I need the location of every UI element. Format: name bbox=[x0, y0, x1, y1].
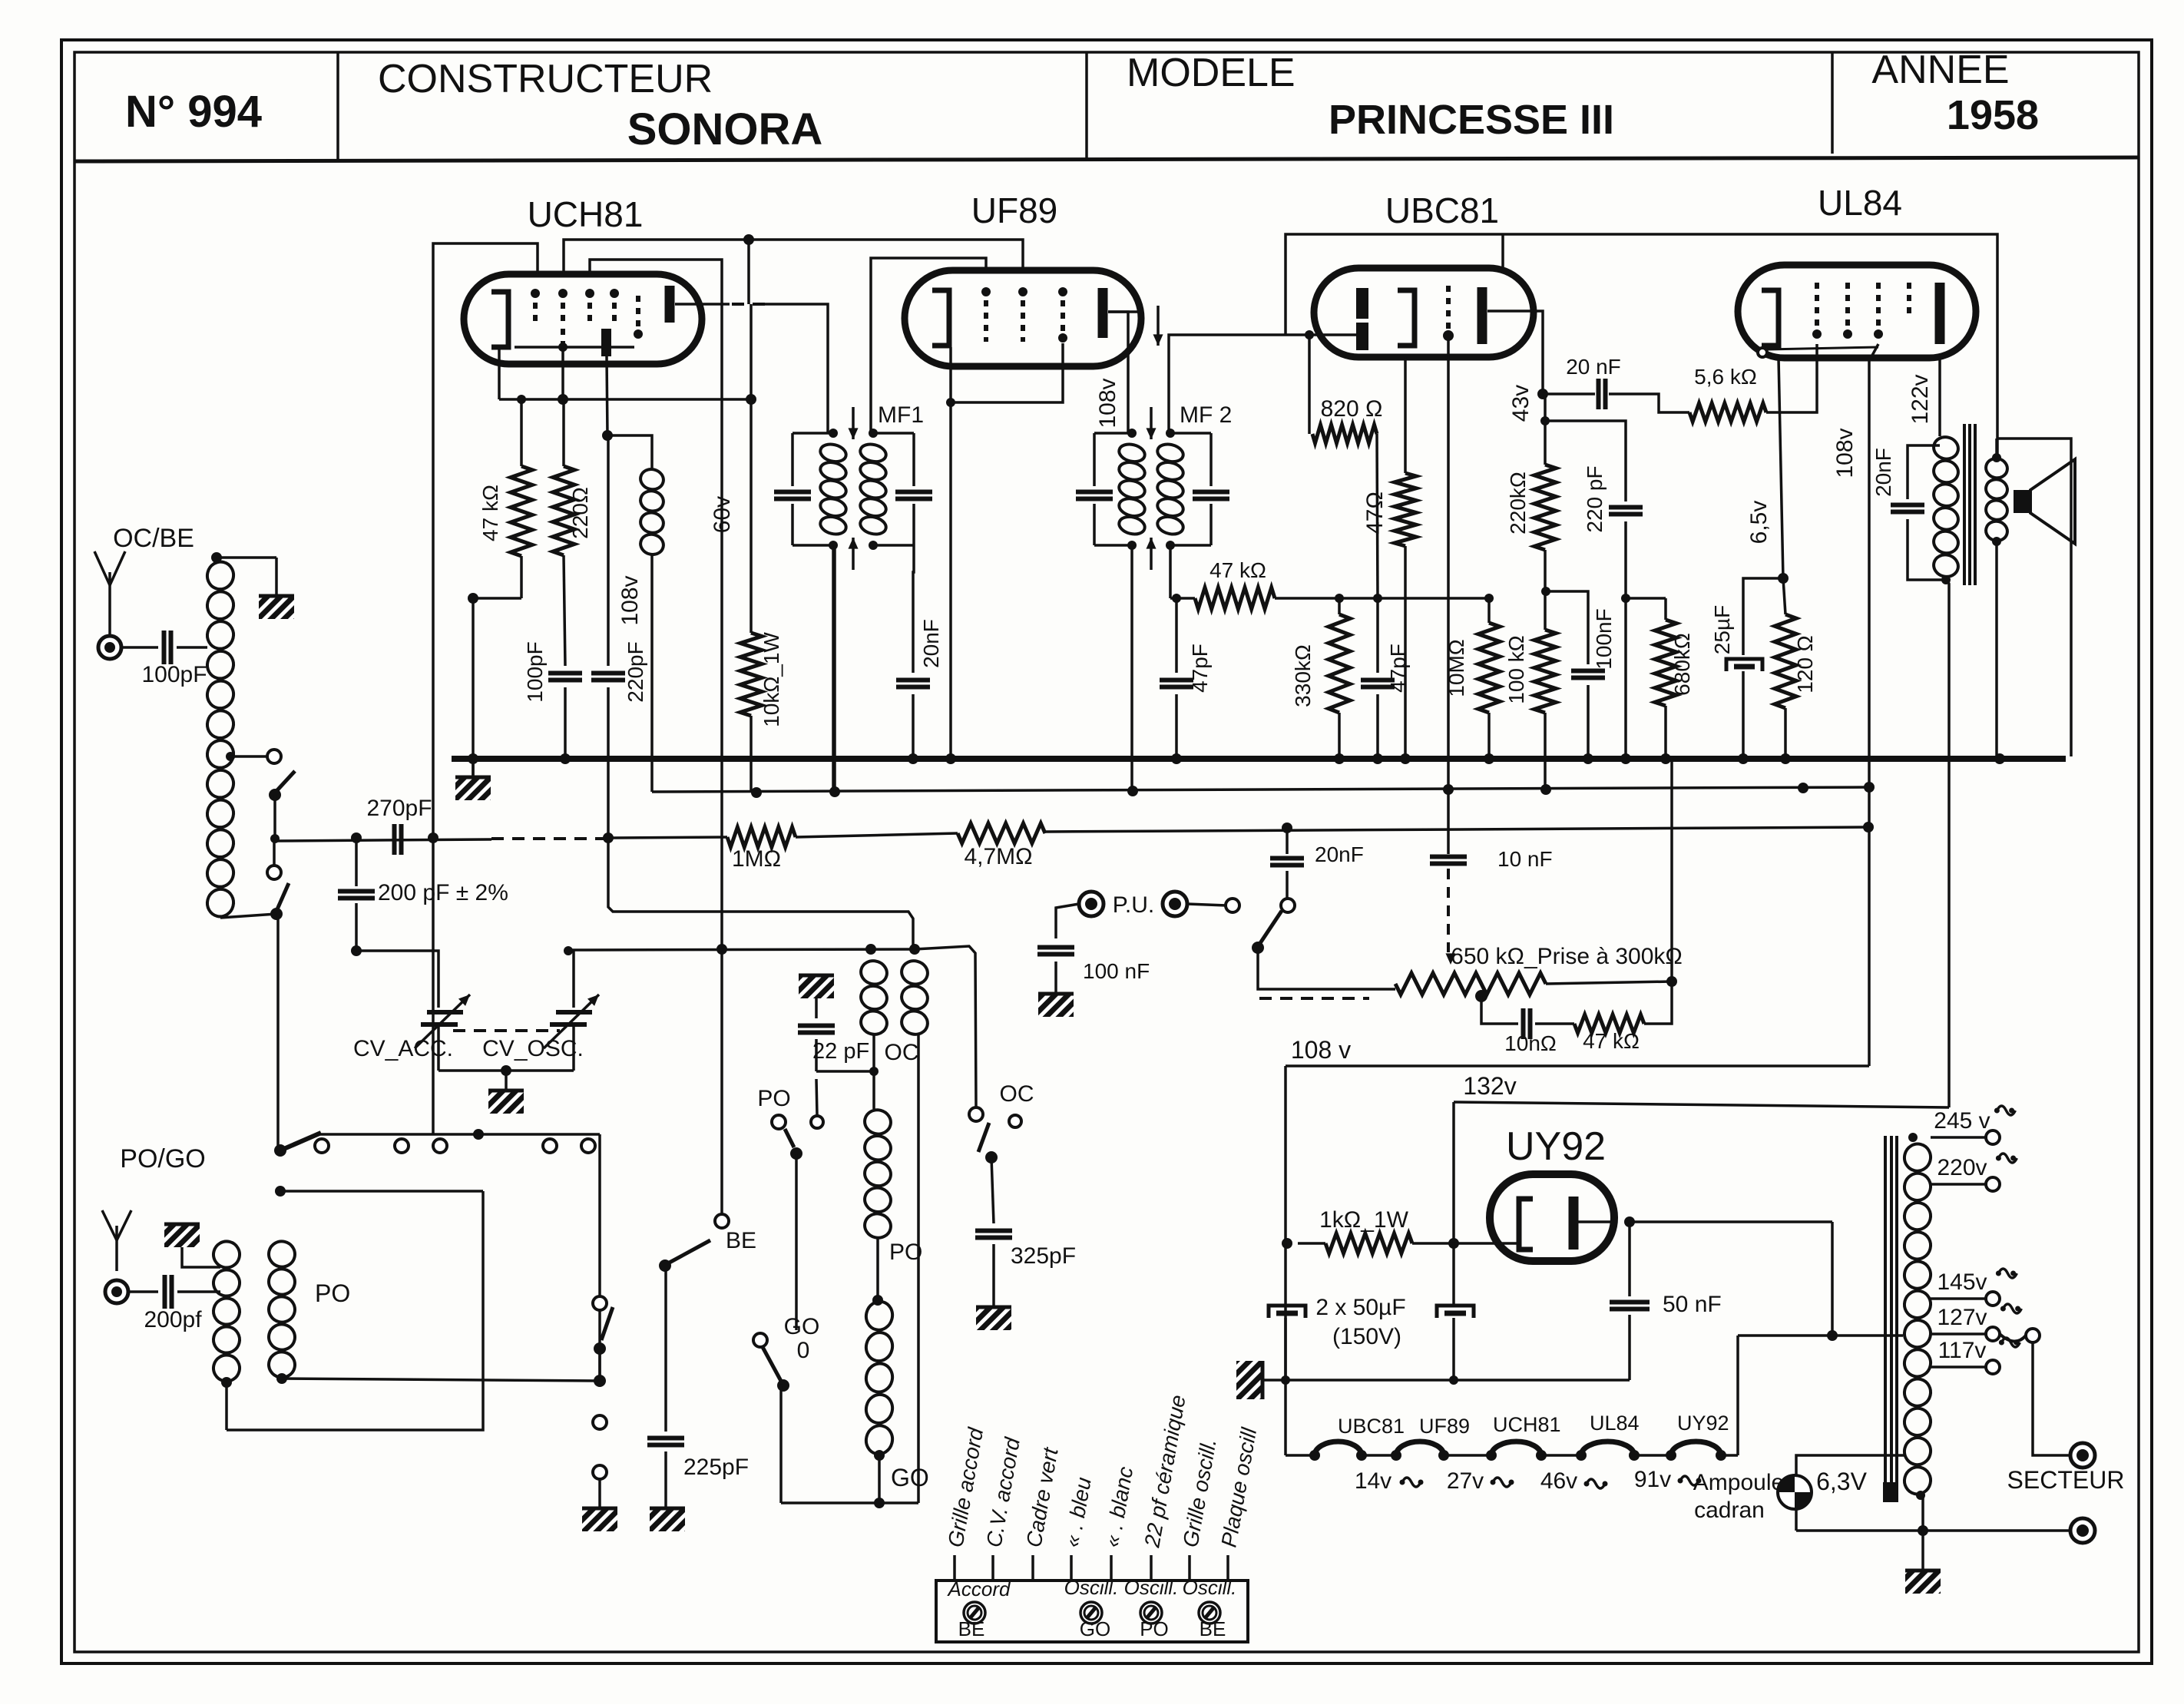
svg-text:P.U.: P.U. bbox=[1113, 892, 1154, 918]
svg-text:SECTEUR: SECTEUR bbox=[2007, 1466, 2125, 1494]
svg-text:2 x 50µF: 2 x 50µF bbox=[1315, 1295, 1405, 1320]
svg-text:CV_ACC.: CV_ACC. bbox=[353, 1036, 453, 1061]
svg-text:UF89: UF89 bbox=[971, 190, 1057, 230]
svg-text:CONSTRUCTEUR: CONSTRUCTEUR bbox=[378, 57, 713, 101]
svg-text:1958: 1958 bbox=[1947, 92, 2039, 138]
svg-text:680kΩ: 680kΩ bbox=[1670, 633, 1694, 696]
svg-text:BE: BE bbox=[958, 1617, 985, 1640]
svg-text:PO: PO bbox=[757, 1086, 790, 1111]
svg-text:UBC81: UBC81 bbox=[1338, 1415, 1405, 1438]
svg-text:220pF: 220pF bbox=[624, 641, 647, 702]
svg-text:5,6 kΩ: 5,6 kΩ bbox=[1694, 365, 1757, 389]
svg-text:108 v: 108 v bbox=[1291, 1036, 1351, 1064]
svg-text:325pF: 325pF bbox=[1011, 1243, 1076, 1269]
svg-text:MF1: MF1 bbox=[878, 402, 924, 428]
svg-text:UY92: UY92 bbox=[1506, 1124, 1606, 1169]
svg-text:(150V): (150V) bbox=[1332, 1324, 1401, 1349]
svg-text:Ampoule: Ampoule bbox=[1693, 1470, 1784, 1495]
svg-text:225pF: 225pF bbox=[683, 1455, 749, 1480]
svg-text:91v: 91v bbox=[1634, 1467, 1671, 1492]
svg-text:108v: 108v bbox=[1832, 428, 1858, 478]
svg-text:PRINCESSE III: PRINCESSE III bbox=[1329, 97, 1614, 143]
svg-text:UL84: UL84 bbox=[1818, 183, 1902, 223]
svg-text:20nF: 20nF bbox=[1315, 842, 1364, 866]
svg-text:6,5v: 6,5v bbox=[1746, 501, 1772, 545]
svg-text:UCH81: UCH81 bbox=[528, 194, 644, 234]
svg-text:20 nF: 20 nF bbox=[1566, 355, 1621, 379]
svg-text:GO: GO bbox=[891, 1464, 929, 1491]
svg-text:4,7MΩ: 4,7MΩ bbox=[964, 844, 1032, 869]
svg-text:245 v: 245 v bbox=[1934, 1108, 1990, 1134]
svg-text:N° 994: N° 994 bbox=[125, 87, 262, 137]
svg-text:43v: 43v bbox=[1508, 385, 1534, 422]
svg-text:Accord: Accord bbox=[947, 1577, 1011, 1600]
svg-text:BE: BE bbox=[726, 1228, 756, 1253]
svg-text:20nF: 20nF bbox=[919, 619, 943, 668]
svg-text:10 nF: 10 nF bbox=[1497, 847, 1553, 871]
svg-text:820 Ω: 820 Ω bbox=[1321, 396, 1383, 422]
svg-text:127v: 127v bbox=[1937, 1305, 1987, 1330]
svg-text:108v: 108v bbox=[1095, 378, 1120, 428]
svg-text:47pF: 47pF bbox=[1188, 644, 1212, 693]
svg-text:47 kΩ: 47 kΩ bbox=[1583, 1029, 1640, 1053]
svg-text:100 nF: 100 nF bbox=[1083, 959, 1150, 983]
svg-text:220v: 220v bbox=[1937, 1155, 1987, 1180]
svg-text:50 nF: 50 nF bbox=[1663, 1292, 1722, 1317]
svg-text:10nΩ: 10nΩ bbox=[1504, 1031, 1557, 1055]
svg-text:270pF: 270pF bbox=[366, 796, 432, 821]
svg-text:200pf: 200pf bbox=[144, 1307, 202, 1332]
svg-text:122v: 122v bbox=[1908, 374, 1933, 424]
svg-text:117v: 117v bbox=[1938, 1338, 1987, 1363]
svg-text:47 kΩ: 47 kΩ bbox=[1209, 558, 1266, 582]
svg-text:1kΩ_1W: 1kΩ_1W bbox=[1319, 1207, 1408, 1233]
svg-text:PO: PO bbox=[315, 1279, 350, 1307]
svg-text:OC: OC bbox=[885, 1040, 919, 1065]
svg-text:OC/BE: OC/BE bbox=[113, 524, 194, 553]
svg-text:0: 0 bbox=[797, 1338, 810, 1363]
svg-text:60v: 60v bbox=[710, 496, 735, 533]
svg-text:14v: 14v bbox=[1355, 1468, 1391, 1494]
svg-text:CV_OSC.: CV_OSC. bbox=[482, 1036, 584, 1061]
svg-text:UL84: UL84 bbox=[1590, 1412, 1640, 1435]
svg-text:PO/GO: PO/GO bbox=[120, 1144, 205, 1173]
svg-text:100pF: 100pF bbox=[523, 641, 547, 702]
svg-text:cadran: cadran bbox=[1694, 1498, 1765, 1523]
svg-text:SONORA: SONORA bbox=[627, 104, 823, 154]
svg-text:22 pF: 22 pF bbox=[812, 1039, 869, 1064]
svg-text:100nF: 100nF bbox=[1592, 608, 1616, 669]
svg-text:650 kΩ_Prise à 300kΩ: 650 kΩ_Prise à 300kΩ bbox=[1451, 944, 1683, 969]
svg-text:25µF: 25µF bbox=[1710, 605, 1734, 654]
svg-text:MODELE: MODELE bbox=[1127, 51, 1296, 95]
svg-text:UCH81: UCH81 bbox=[1493, 1413, 1561, 1436]
svg-text:10kΩ_1W: 10kΩ_1W bbox=[759, 632, 783, 727]
svg-text:120 Ω: 120 Ω bbox=[1793, 635, 1817, 693]
svg-text:1MΩ: 1MΩ bbox=[732, 846, 781, 872]
svg-text:Oscill.: Oscill. bbox=[1124, 1576, 1179, 1599]
svg-text:UBC81: UBC81 bbox=[1385, 190, 1499, 230]
svg-text:UF89: UF89 bbox=[1419, 1415, 1470, 1438]
svg-text:100 kΩ: 100 kΩ bbox=[1504, 635, 1528, 703]
svg-text:330kΩ: 330kΩ bbox=[1291, 644, 1315, 707]
svg-text:132v: 132v bbox=[1463, 1072, 1516, 1100]
svg-text:GO: GO bbox=[784, 1314, 820, 1339]
svg-text:220 pF: 220 pF bbox=[1583, 465, 1607, 532]
svg-text:Oscill.: Oscill. bbox=[1064, 1576, 1119, 1599]
svg-text:MF 2: MF 2 bbox=[1180, 402, 1232, 428]
svg-text:27v: 27v bbox=[1447, 1468, 1484, 1494]
svg-text:47Ω: 47Ω bbox=[1362, 492, 1388, 535]
svg-text:PO: PO bbox=[1140, 1617, 1169, 1640]
svg-text:108v: 108v bbox=[617, 575, 643, 625]
svg-text:220kΩ: 220kΩ bbox=[1506, 472, 1530, 535]
svg-text:100pF: 100pF bbox=[141, 662, 207, 687]
svg-text:Oscill.: Oscill. bbox=[1183, 1576, 1237, 1599]
svg-text:47 kΩ: 47 kΩ bbox=[478, 485, 502, 541]
svg-text:BE: BE bbox=[1200, 1617, 1226, 1640]
svg-text:6,3V: 6,3V bbox=[1816, 1468, 1867, 1495]
svg-text:46v: 46v bbox=[1540, 1468, 1577, 1494]
svg-text:220Ω: 220Ω bbox=[568, 487, 592, 539]
svg-text:200 pF ± 2%: 200 pF ± 2% bbox=[378, 880, 508, 905]
svg-text:UY92: UY92 bbox=[1677, 1412, 1729, 1435]
svg-text:ANNEE: ANNEE bbox=[1871, 48, 2009, 92]
svg-text:OC: OC bbox=[1000, 1081, 1034, 1107]
svg-text:GO: GO bbox=[1080, 1617, 1110, 1640]
svg-text:145v: 145v bbox=[1937, 1269, 1987, 1295]
svg-text:20nF: 20nF bbox=[1871, 448, 1895, 497]
